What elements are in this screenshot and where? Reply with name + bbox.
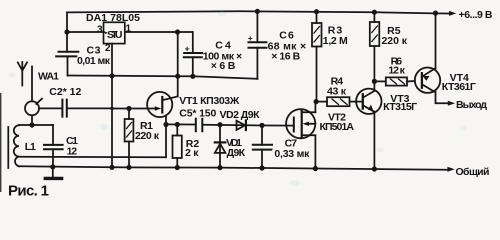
transistor VT4 (PNP KT361) [415, 68, 440, 93]
inductor L1 [14, 125, 19, 166]
wire: C4 bottom lead [192, 57, 194, 76]
wire: vertical from pin1 wire down to line A [177, 32, 179, 96]
capacitor C4 (electrolytic) [184, 53, 202, 57]
node: junction VT3 emitter/ground [372, 166, 377, 171]
wire: C1 top lead [52, 125, 54, 145]
svg-text:КТ315Г: КТ315Г [383, 101, 417, 113]
capacitor C6 (electrolytic) [249, 42, 267, 47]
inductor L1 core line [7, 127, 9, 168]
node: junction VD1/detector wire [217, 122, 222, 127]
wire: C5 to VD2 [202, 124, 246, 127]
svg-text:STU: STU [107, 29, 123, 41]
scan artifact: cyan smudges [100, 124, 108, 130]
wire: VT3 collector up to R5 [373, 47, 375, 91]
wire: antenna downlead [31, 67, 33, 102]
wire: +6...9V top rail [67, 11, 450, 13]
label STU bullet [105, 32, 107, 34]
node: junction source/detector wire [163, 122, 168, 127]
svg-text:Общий: Общий [456, 166, 490, 178]
node: junction R1/ground [126, 165, 131, 170]
wire: VT2 source down to ground [314, 135, 316, 168]
wire: DA1 pin3 lead [67, 31, 104, 33]
capacitor C3 [56, 52, 78, 57]
node: junction C7/ground [259, 165, 264, 170]
capacitor C7 [261, 125, 263, 144]
svg-text:Выход: Выход [456, 99, 487, 111]
svg-text:Д9К: Д9К [227, 147, 246, 159]
svg-text:12 к: 12 к [388, 65, 405, 77]
svg-text:3: 3 [97, 25, 103, 36]
svg-text:2: 2 [105, 43, 111, 54]
svg-text:× 6 В: × 6 В [211, 60, 236, 72]
node: junction R5/top rail [372, 10, 377, 15]
op-amp U1: DA1 78L05 regulator box [104, 22, 125, 43]
svg-text:220 к: 220 к [135, 130, 160, 142]
wire: VT4 emitter up to rail [435, 13, 437, 69]
resistor R5 [373, 12, 375, 22]
node: small junction pin2/gate wire [110, 107, 113, 110]
antenna WA1 [18, 62, 27, 86]
svg-text:0,01 мк: 0,01 мк [77, 55, 111, 67]
arrow: +6...9V [449, 11, 456, 16]
svg-text:× 16 В: × 16 В [271, 50, 300, 62]
node: junction VD1/ground [217, 165, 222, 170]
resistor R3 [316, 12, 318, 23]
wire: left rail below C3 down to line A [67, 56, 69, 75]
diode VD1 [219, 125, 221, 168]
resistor R2 [176, 125, 178, 136]
node: junction R1/gate wire [126, 106, 131, 111]
wire: C6 bottom lead up [256, 48, 258, 79]
wire: DA1 pin2 vertical down to ground [111, 44, 113, 168]
node: junction pin2/line A [109, 73, 114, 78]
wire: tank top line [19, 124, 53, 126]
wire: DA1 pin1 lead to C4 corner [125, 31, 193, 33]
node: junction R3/R4/VT2 drain [314, 99, 319, 104]
node: junction VT4 emitter/top rail [433, 11, 438, 16]
wire: C6 top lead [256, 11, 258, 42]
transistor VT2 (MOSFET KP501A) [286, 109, 315, 138]
capacitor C1 [44, 145, 63, 149]
wire: VT3 emitter down to ground [373, 112, 375, 170]
wire: VT2 drain up [314, 102, 316, 113]
node: junction antenna/tank top [29, 122, 34, 127]
transistor VT4 emitter arrow [423, 76, 430, 81]
diode VD2 [237, 121, 246, 130]
node: junction R6/collector [372, 79, 377, 84]
svg-text:+: + [185, 44, 190, 54]
transistor VT3 emitter arrow [368, 105, 374, 112]
transistor VT1 (JFET KP303) [147, 92, 172, 117]
svg-text:220 к: 220 к [382, 35, 408, 47]
node: junction C7/gate wire [259, 123, 264, 128]
svg-text:VD2 Д9К: VD2 Д9К [220, 109, 261, 121]
node: junction C6/top rail [255, 9, 260, 14]
scan artifact: left edge [0, 93, 1, 192]
ground symbol [52, 167, 54, 177]
wire: ground line [19, 166, 447, 170]
wire: detector line source to C5 [166, 123, 195, 125]
node: pin3 junction on left rail [64, 29, 69, 34]
wire: gate wire C2 to VT1 [112, 108, 158, 110]
node: junction R2/detector wire [175, 122, 180, 127]
svg-text:WA1: WA1 [38, 71, 59, 83]
wire: VT1 drain dog-leg to vertical [162, 96, 177, 100]
wire: VT1 source down and to tap [165, 117, 167, 157]
svg-text:КТ361Г: КТ361Г [442, 81, 476, 93]
transistor VT3 (NPN KT315) [356, 89, 381, 114]
node: junction VT2 source/ground [313, 166, 318, 171]
node: junction vertical/line A [175, 74, 180, 79]
wire: jack to tank junction [31, 115, 33, 125]
svg-text:C2* 12: C2* 12 [49, 86, 81, 98]
svg-text:12: 12 [67, 145, 78, 157]
arrow: common [447, 167, 454, 172]
svg-text:+6...9 В: +6...9 В [459, 9, 493, 21]
wire: L1 tap line to VT1 source [19, 156, 166, 159]
wire: left vertical rail upper (to C3) [66, 12, 68, 51]
node: junction C4/line A [190, 74, 195, 79]
node: junction R3/top rail [314, 9, 319, 14]
wire: C1 bottom lead [52, 149, 54, 167]
svg-text:0,33 мк: 0,33 мк [274, 148, 310, 160]
capacitor C5 [196, 119, 203, 132]
node: junction C1/ground line [50, 164, 55, 169]
svg-text:VT1 КП303Ж: VT1 КП303Ж [179, 95, 240, 107]
transistor VT1 gate arrow [155, 106, 161, 111]
svg-text:1: 1 [126, 24, 132, 35]
connector tick [36, 99, 42, 104]
svg-text:1,2 М: 1,2 М [323, 35, 348, 47]
node: junction pin1/vertical [175, 29, 180, 34]
resistor R6 [374, 80, 385, 82]
svg-text:КП501А: КП501А [320, 121, 355, 133]
svg-text:43 к: 43 к [327, 85, 347, 97]
svg-text:2 к: 2 к [185, 147, 199, 159]
wire: VD2 to VT2 gate [246, 124, 294, 126]
svg-text:C5* 150: C5* 150 [179, 107, 216, 119]
transistor VT2 arrow [303, 122, 310, 126]
arrow: output [448, 101, 455, 106]
svg-text:Рис. 1: Рис. 1 [8, 183, 49, 200]
svg-text:L1: L1 [25, 141, 36, 153]
svg-text:DA1 78L05: DA1 78L05 [86, 12, 140, 24]
capacitor C2 [39, 107, 112, 109]
connector X1 (antenna jack circle) [25, 101, 39, 115]
node: junction R2/ground [175, 165, 180, 170]
node: junction pin2/ground [109, 165, 114, 170]
wire: C4 top lead [192, 32, 194, 53]
resistor R4 [317, 101, 328, 103]
resistor R1 [128, 109, 130, 120]
svg-text:+: + [248, 33, 253, 43]
wire: line A horizontal [68, 76, 258, 79]
wire: VT4 collector to output [436, 92, 448, 104]
